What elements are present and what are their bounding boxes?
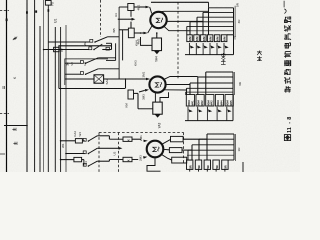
wire main bus 2 [34, 0, 36, 172]
relay box bottom b [123, 157, 132, 161]
motor 3M [149, 76, 165, 92]
wire main bus 6 [54, 27, 56, 172]
wire fuse FU3 [61, 159, 74, 161]
wire feet under 5R row [189, 169, 191, 171]
wire bank 3R bottom [185, 120, 233, 122]
tick bus 1 [26, 11, 28, 13]
resistor bank 3R right join [232, 95, 234, 121]
wire motor 3M rotor 3 [164, 89, 187, 91]
accelerating contact hooks 3R [188, 107, 193, 113]
wire bottom relay stubs [132, 138, 141, 140]
wire bottom right corner [242, 162, 244, 172]
wire YA4 feed [141, 37, 153, 45]
wire motor 2M lead b arrow [143, 156, 147, 159]
label motor 4M [156, 18, 162, 23]
wire riser v2 [118, 7, 120, 79]
wire bank 4R bottom [185, 54, 234, 56]
wire motor 4M rotor 3 [164, 26, 190, 31]
wire bottom c out [97, 160, 109, 162]
tick bus edge [6, 19, 8, 22]
label motor 2M [153, 147, 159, 152]
wire motor 4M rotor 1 [159, 10, 209, 13]
dashed boundary bottom v1 [98, 133, 100, 173]
fuse FU2 [75, 139, 82, 143]
electromagnet YA3 [153, 102, 162, 114]
arrow U3 to control circuit [118, 18, 132, 20]
wire 2M rotor 3 [161, 154, 171, 160]
electromagnet YA4 [152, 38, 162, 51]
wire 2M rotor 2 [163, 148, 169, 151]
wire L bend [106, 59, 116, 61]
dashed controller boundary top [100, 0, 102, 37]
dashed boundary bottom v3 [183, 133, 185, 164]
wire YA3 to stator a [154, 93, 156, 102]
wire main bus 8 [65, 25, 67, 172]
caption glyph tu [284, 135, 290, 141]
wire mid contact b out [98, 68, 119, 70]
wire contact a out [108, 36, 120, 38]
tick bus 2 [35, 10, 37, 12]
wire 2M stator down [147, 157, 161, 171]
resistor bank 4R frame [209, 7, 234, 9]
fuse FU3 [74, 157, 82, 161]
wire main bus 3 [39, 26, 41, 172]
knife contact mid b [85, 73, 87, 75]
resistor box 2R3 [172, 157, 187, 163]
wire riser v3 [122, 30, 124, 61]
wire fuse FU2 [61, 140, 76, 142]
label motor 3M [155, 82, 161, 87]
resistor bank 5R right join [228, 159, 234, 161]
wire riser v1 [115, 43, 117, 60]
resistor bank 4R right join [227, 34, 234, 36]
label unit name mid chars [257, 51, 262, 61]
label unit name top [221, 53, 226, 64]
dashed boundary bottom v2 [118, 133, 120, 173]
resistor section row 5R [187, 160, 193, 169]
wire motor 3M lead b [139, 90, 145, 92]
wire motor 4M lead a [134, 6, 146, 8]
resistor box 2R2 [169, 148, 182, 153]
tick under fuse [48, 9, 50, 12]
wire bottom a out [97, 135, 109, 137]
wire motor 3M lead arrow [146, 78, 150, 80]
knife contact b [93, 49, 95, 51]
label mark phase a [13, 37, 17, 40]
wire motor 2M lead a arrow [143, 140, 147, 143]
wire main bus 5 [47, 5, 49, 172]
wire mid contact feed b [65, 73, 81, 75]
wire mid contact feed a [65, 62, 81, 64]
wire mid contact feed [66, 153, 85, 155]
wire 2M rotor 1 [162, 139, 171, 144]
resistor bank 3R frame [206, 71, 233, 73]
wire KA4 lower stubs [130, 22, 132, 29]
relay contact box KA4 lower [128, 28, 134, 38]
wire YA3 to stator b [160, 92, 169, 102]
wire contact feed a [48, 41, 90, 43]
wire main bus 7 [60, 27, 62, 172]
wire bottom b out [97, 147, 112, 149]
scan noise overlay [0, 0, 1, 1]
wire motor 4M rotor 2 [167, 20, 203, 22]
knife contact a [94, 41, 96, 43]
wire KA4 upper left stub [119, 6, 128, 8]
resistor box 2R1 [171, 136, 184, 141]
relay box bottom a [123, 137, 132, 141]
contact box row bank 3R [186, 95, 194, 107]
paper background [0, 0, 300, 172]
motor 2M [147, 141, 164, 158]
fuse FU1 [45, 1, 51, 6]
wire SA3 to motor 3M [104, 78, 146, 80]
wire KM box to YA3 [134, 92, 139, 94]
wire motor 4M lead b [134, 32, 143, 34]
knife contact bottom c [88, 165, 90, 167]
label mark phase e [13, 142, 17, 145]
knife contact mid a [85, 62, 87, 64]
motor 4M [150, 12, 166, 28]
knife contact bottom a [88, 140, 90, 142]
limit switch box SA3 [94, 75, 104, 83]
resistor bank 5R frame [207, 133, 234, 135]
label mark phase c [3, 86, 5, 89]
caption title pseudo-glyphs [283, 1, 285, 8]
wire stub left lower [0, 153, 5, 155]
wire KA4 upper down stub [130, 11, 132, 17]
wire panel edge line [6, 0, 8, 172]
dashed boundary mid unit [177, 2, 179, 80]
controller enclosure inner [65, 59, 108, 85]
relay contact box KA4 upper [128, 4, 134, 11]
knife contact bottom b [88, 153, 90, 155]
fuse on feed b [54, 47, 60, 51]
wire motor 3M rotor 1 [164, 77, 197, 80]
dashed boundary bottom h [99, 132, 184, 134]
wire contact feed b [44, 49, 89, 51]
dashed panel boundary mid-left [0, 113, 9, 115]
wire motor 3M rotor 2 [166, 84, 190, 86]
wire main bus 4 [43, 0, 45, 172]
wire stator top link [151, 1, 209, 3]
label mark phase d [12, 128, 16, 131]
wire SA3 left feed [65, 78, 94, 80]
wire YA4 to stator [156, 33, 158, 38]
wire contact b out [102, 49, 111, 51]
wire bottom-left branch [4, 125, 27, 127]
fixed contact square c [106, 47, 109, 50]
wire main bus 1 [26, 0, 28, 172]
accelerating contact hooks 4R [189, 43, 194, 49]
controller enclosure outer [59, 46, 112, 89]
wire mid contact a out [98, 57, 115, 59]
resistor section row 4R [187, 35, 193, 42]
wire rotor boxes to bank 5R [183, 138, 207, 140]
contact box KM feed YA3 [128, 90, 134, 99]
dashed panel boundary top-left [0, 10, 9, 12]
